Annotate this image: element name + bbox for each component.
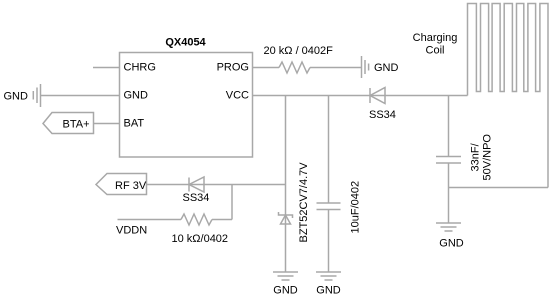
- svg-text:Charging: Charging: [413, 32, 458, 44]
- svg-text:GND: GND: [4, 91, 29, 103]
- wire VDDN resistor branch vertical: [231, 185, 233, 220]
- svg-text:50V/NPO: 50V/NPO: [482, 134, 494, 181]
- svg-text:QX4054: QX4054: [165, 37, 206, 49]
- svg-text:10uF/0402: 10uF/0402: [350, 181, 362, 234]
- wire diode to coil: [385, 95, 468, 97]
- svg-text:SS34: SS34: [369, 109, 396, 121]
- wire VDDN stub: [118, 219, 182, 221]
- wire 33nF cap bottom to ground: [448, 163, 450, 223]
- ground at PROG (earth symbol): [362, 56, 369, 78]
- svg-text:GND: GND: [124, 90, 149, 102]
- ground under zener: [273, 272, 298, 280]
- wire VCC: [253, 95, 386, 97]
- zener diode Z1 BZT52CV7/4.7V: [279, 162, 311, 243]
- ground under 10uF cap: [316, 272, 341, 280]
- wire RF3V to diode: [147, 184, 286, 186]
- wire 10uF cap branch top: [328, 96, 330, 204]
- capacitor C2 33nF/50V/NPO: [436, 134, 494, 181]
- net flag RF 3V: [96, 174, 147, 195]
- wire CHRG stub: [93, 67, 120, 69]
- diode D1 SS34: [369, 88, 396, 122]
- svg-text:GND: GND: [273, 285, 298, 297]
- diode D2 SS34: [183, 177, 210, 204]
- capacitor C1 10uF/0402: [317, 181, 362, 234]
- svg-text:BTA+: BTA+: [63, 119, 90, 131]
- svg-text:10 kΩ/0402: 10 kΩ/0402: [172, 233, 229, 245]
- svg-text:VCC: VCC: [226, 90, 249, 102]
- wire 33nF cap branch top: [448, 96, 450, 157]
- IC U1 QX4054: [120, 37, 253, 158]
- wire GND pin: [41, 95, 120, 97]
- wire BAT: [94, 123, 120, 125]
- wire coil bottom to cap junction: [449, 187, 549, 189]
- svg-text:GND: GND: [316, 285, 341, 297]
- wire 10uF cap bottom to ground: [328, 210, 330, 273]
- svg-text:RF 3V: RF 3V: [115, 180, 147, 192]
- svg-text:VDDN: VDDN: [116, 225, 147, 237]
- net flag BTA+: [43, 113, 94, 134]
- wire zener branch vertical: [285, 96, 287, 273]
- inductor L1 charging coil (meander): [413, 4, 548, 188]
- resistor R2 10 kOhm/0402: [172, 214, 233, 245]
- svg-text:33nF/: 33nF/: [470, 142, 482, 171]
- wire PROG: [253, 67, 280, 69]
- svg-text:SS34: SS34: [183, 192, 210, 204]
- ground bottom right: [436, 223, 461, 231]
- ground GND left (earth symbol): [33, 84, 40, 107]
- wire resistor to ground: [310, 67, 362, 69]
- svg-text:20 kΩ / 0402F: 20 kΩ / 0402F: [264, 45, 334, 57]
- svg-text:GND: GND: [374, 62, 399, 74]
- svg-text:CHRG: CHRG: [124, 62, 156, 74]
- svg-text:BZT52CV7/4.7V: BZT52CV7/4.7V: [298, 162, 310, 243]
- svg-text:GND: GND: [439, 238, 464, 250]
- resistor R1 20 kOhm / 0402F: [264, 45, 334, 73]
- svg-text:BAT: BAT: [124, 118, 145, 130]
- svg-text:Coil: Coil: [426, 45, 445, 57]
- svg-text:PROG: PROG: [217, 62, 249, 74]
